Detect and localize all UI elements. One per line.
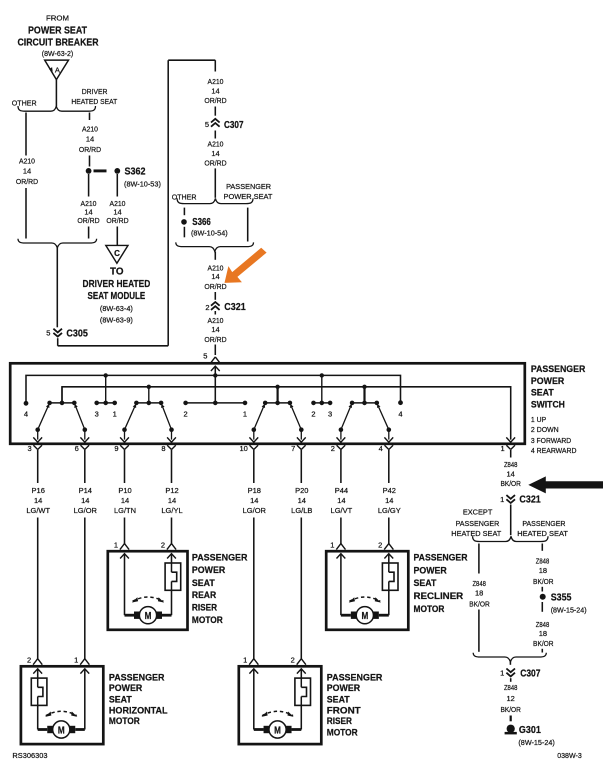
svg-text:M: M (58, 725, 65, 736)
svg-text:14: 14 (81, 496, 89, 505)
svg-text:BK/OR: BK/OR (500, 479, 521, 488)
svg-text:14: 14 (84, 207, 92, 216)
svg-text:Z848: Z848 (504, 460, 518, 469)
svg-text:4: 4 (398, 410, 402, 419)
svg-text:1 UP: 1 UP (531, 415, 546, 424)
svg-text:5: 5 (46, 329, 50, 338)
svg-text:4 REARWARD: 4 REARWARD (531, 446, 577, 455)
svg-text:OR/RD: OR/RD (204, 282, 227, 291)
svg-text:LG/TN: LG/TN (114, 506, 136, 515)
svg-text:Z848: Z848 (536, 620, 550, 629)
svg-text:POWER SEAT: POWER SEAT (224, 192, 273, 201)
svg-text:POWER: POWER (531, 376, 564, 387)
svg-text:18: 18 (539, 629, 547, 638)
svg-text:POWER: POWER (192, 565, 225, 576)
svg-text:P20: P20 (295, 486, 308, 495)
svg-text:POWER: POWER (109, 683, 142, 694)
svg-text:OTHER: OTHER (12, 98, 37, 107)
svg-text:OR/RD: OR/RD (106, 216, 129, 225)
svg-text:MOTOR: MOTOR (192, 615, 223, 626)
svg-text:LG/WT: LG/WT (26, 506, 50, 515)
svg-text:S362: S362 (125, 166, 146, 178)
svg-text:C321: C321 (519, 494, 541, 506)
svg-text:1: 1 (243, 656, 247, 665)
svg-text:S355: S355 (551, 592, 572, 604)
svg-text:OR/RD: OR/RD (204, 96, 227, 105)
svg-text:BK/OR: BK/OR (533, 577, 554, 586)
svg-text:P10: P10 (118, 486, 131, 495)
svg-text:PASSENGER: PASSENGER (456, 519, 500, 528)
svg-text:2: 2 (331, 444, 335, 453)
svg-text:Z848: Z848 (536, 556, 550, 565)
svg-text:2: 2 (311, 410, 315, 419)
svg-text:G301: G301 (519, 724, 541, 736)
svg-text:PASSENGER: PASSENGER (327, 672, 383, 683)
svg-text:MOTOR: MOTOR (109, 716, 140, 727)
svg-text:14: 14 (298, 496, 306, 505)
svg-text:9: 9 (114, 444, 118, 453)
svg-text:HEATED SEAT: HEATED SEAT (451, 529, 501, 538)
svg-text:REAR: REAR (192, 590, 216, 601)
svg-text:(8W-63-9): (8W-63-9) (100, 316, 133, 325)
svg-text:2: 2 (205, 303, 209, 312)
svg-text:P14: P14 (79, 486, 92, 495)
svg-text:P44: P44 (335, 486, 348, 495)
svg-text:3: 3 (28, 444, 32, 453)
svg-text:1: 1 (243, 410, 247, 419)
svg-text:HEATED SEAT: HEATED SEAT (517, 529, 568, 538)
svg-text:4: 4 (24, 410, 28, 419)
svg-text:SEAT: SEAT (327, 694, 350, 705)
svg-text:BK/OR: BK/OR (469, 600, 490, 609)
svg-text:3 FORWARD: 3 FORWARD (531, 436, 572, 445)
svg-text:C307: C307 (520, 668, 540, 680)
svg-text:14: 14 (385, 496, 393, 505)
svg-text:14: 14 (34, 496, 42, 505)
svg-text:14: 14 (121, 496, 129, 505)
svg-text:6: 6 (75, 444, 79, 453)
svg-text:14: 14 (113, 207, 121, 216)
svg-text:14: 14 (337, 496, 345, 505)
svg-text:4: 4 (379, 444, 383, 453)
svg-text:1: 1 (500, 669, 504, 678)
svg-text:2: 2 (184, 410, 188, 419)
svg-text:P18: P18 (248, 486, 261, 495)
svg-text:14: 14 (507, 470, 515, 479)
svg-text:POWER SEAT: POWER SEAT (28, 25, 87, 37)
svg-text:A210: A210 (82, 124, 98, 133)
svg-text:SEAT MODULE: SEAT MODULE (88, 290, 146, 302)
svg-text:S366: S366 (192, 216, 211, 228)
svg-text:SEAT: SEAT (109, 694, 132, 705)
svg-text:SWITCH: SWITCH (531, 400, 565, 411)
svg-text:OR/RD: OR/RD (79, 145, 102, 154)
svg-text:PASSENGER: PASSENGER (226, 182, 272, 191)
svg-text:RISER: RISER (327, 716, 352, 727)
svg-text:2 DOWN: 2 DOWN (531, 425, 559, 434)
svg-text:A210: A210 (208, 77, 224, 86)
svg-text:HORIZONTAL: HORIZONTAL (109, 705, 168, 716)
svg-text:A210: A210 (208, 139, 224, 148)
svg-text:(8W-10-54): (8W-10-54) (191, 229, 228, 238)
svg-text:14: 14 (168, 496, 176, 505)
svg-text:18: 18 (475, 589, 483, 598)
svg-text:10: 10 (239, 444, 247, 453)
svg-text:C: C (114, 249, 120, 258)
svg-text:A210: A210 (19, 156, 35, 165)
svg-text:OR/RD: OR/RD (204, 335, 227, 344)
svg-text:Z848: Z848 (504, 683, 518, 692)
svg-text:A210: A210 (208, 316, 224, 325)
svg-text:MOTOR: MOTOR (327, 727, 358, 738)
svg-text:BK/OR: BK/OR (533, 639, 554, 648)
svg-text:2: 2 (161, 540, 165, 549)
svg-text:2: 2 (378, 540, 382, 549)
svg-text:Z848: Z848 (472, 579, 486, 588)
svg-text:M: M (145, 611, 152, 622)
svg-text:1: 1 (74, 656, 78, 665)
svg-text:14: 14 (211, 87, 219, 96)
svg-text:8: 8 (161, 444, 165, 453)
svg-text:1: 1 (501, 444, 505, 453)
svg-text:LG/VT: LG/VT (331, 506, 353, 515)
svg-text:CIRCUIT BREAKER: CIRCUIT BREAKER (18, 37, 99, 49)
svg-text:LG/GY: LG/GY (378, 506, 401, 515)
svg-text:OR/RD: OR/RD (77, 216, 100, 225)
svg-text:SEAT: SEAT (531, 388, 554, 399)
svg-text:DRIVER HEATED: DRIVER HEATED (83, 278, 151, 290)
svg-text:LG/YL: LG/YL (161, 506, 182, 515)
svg-text:FROM: FROM (46, 14, 69, 23)
svg-text:P42: P42 (383, 486, 396, 495)
svg-text:SEAT: SEAT (192, 578, 215, 589)
svg-text:(8W-15-24): (8W-15-24) (551, 606, 587, 615)
svg-text:M: M (361, 611, 368, 622)
svg-text:PASSENGER: PASSENGER (531, 364, 586, 375)
svg-text:RISER: RISER (192, 603, 217, 614)
svg-text:OR/RD: OR/RD (204, 159, 227, 168)
svg-text:14: 14 (211, 325, 219, 334)
svg-text:2: 2 (291, 656, 295, 665)
svg-text:038W-3: 038W-3 (557, 751, 582, 760)
svg-text:14: 14 (86, 135, 94, 144)
svg-text:7: 7 (291, 444, 295, 453)
svg-text:M: M (274, 725, 281, 736)
svg-text:FRONT: FRONT (327, 705, 361, 716)
svg-text:P12: P12 (165, 486, 178, 495)
svg-text:PASSENGER: PASSENGER (522, 519, 566, 528)
svg-text:1: 1 (114, 540, 118, 549)
svg-text:14: 14 (211, 149, 219, 158)
svg-text:RECLINER: RECLINER (414, 591, 464, 602)
svg-text:PASSENGER: PASSENGER (192, 553, 248, 564)
svg-text:MOTOR: MOTOR (414, 604, 445, 615)
svg-text:C305: C305 (66, 327, 88, 339)
svg-text:RS306303: RS306303 (12, 751, 47, 760)
svg-text:BK/OR: BK/OR (500, 705, 521, 714)
svg-text:(8W-63-4): (8W-63-4) (100, 304, 133, 313)
svg-text:C321: C321 (224, 301, 246, 313)
svg-text:5: 5 (205, 120, 209, 129)
svg-text:TO: TO (110, 266, 124, 278)
svg-text:POWER: POWER (414, 566, 447, 577)
svg-text:(8W-15-24): (8W-15-24) (518, 738, 555, 747)
svg-text:C307: C307 (224, 119, 244, 131)
svg-text:LG/OR: LG/OR (243, 506, 267, 515)
svg-text:5: 5 (203, 352, 207, 361)
svg-text:LG/OR: LG/OR (74, 506, 98, 515)
svg-text:DRIVER: DRIVER (82, 87, 108, 96)
svg-text:P16: P16 (32, 486, 45, 495)
svg-text:3: 3 (95, 410, 99, 419)
svg-text:14: 14 (211, 272, 219, 281)
svg-text:(8W-10-53): (8W-10-53) (124, 179, 161, 188)
svg-text:(8W-63-2): (8W-63-2) (42, 49, 74, 58)
svg-text:2: 2 (27, 656, 31, 665)
svg-text:A: A (55, 65, 60, 74)
svg-text:1: 1 (113, 410, 117, 419)
svg-text:LG/LB: LG/LB (291, 506, 312, 515)
svg-text:OR/RD: OR/RD (16, 177, 39, 186)
svg-text:14: 14 (23, 166, 31, 175)
svg-text:SEAT: SEAT (414, 578, 437, 589)
svg-text:1: 1 (500, 495, 504, 504)
svg-text:18: 18 (539, 566, 547, 575)
svg-text:HEATED SEAT: HEATED SEAT (71, 97, 117, 106)
svg-text:14: 14 (250, 496, 258, 505)
svg-text:PASSENGER: PASSENGER (109, 672, 165, 683)
svg-text:PASSENGER: PASSENGER (414, 552, 468, 563)
svg-text:3: 3 (328, 410, 332, 419)
svg-text:EXCEPT: EXCEPT (463, 508, 493, 517)
svg-text:12: 12 (507, 694, 515, 703)
svg-text:1: 1 (330, 540, 334, 549)
svg-text:OTHER: OTHER (172, 192, 197, 201)
svg-text:POWER: POWER (327, 683, 360, 694)
